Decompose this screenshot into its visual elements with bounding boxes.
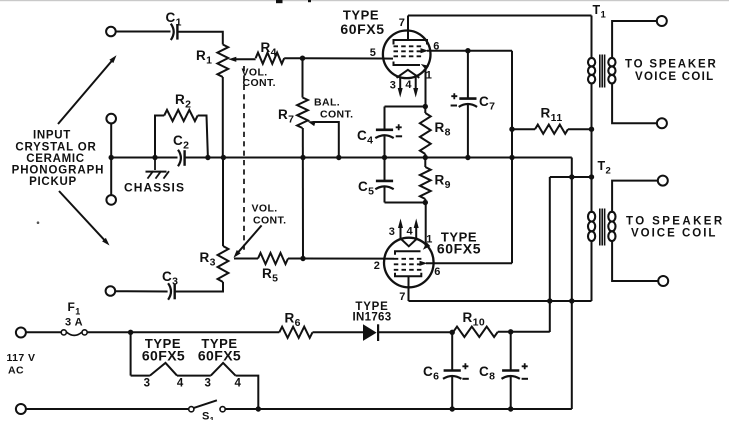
svg-text:3: 3: [144, 378, 151, 390]
wire C7 top lead: [467, 51, 469, 99]
svg-text:CHASSIS: CHASSIS: [124, 181, 185, 195]
switch S1: [189, 407, 194, 412]
R1 wiper arrow: [228, 57, 236, 62]
resistor R9: [424, 158, 426, 168]
capacitor C3: [168, 283, 171, 299]
wire J1 to C1: [116, 31, 171, 33]
wire C5 top lead: [384, 158, 386, 181]
stray ink speck: [37, 221, 40, 224]
svg-text:CERAMIC: CERAMIC: [26, 153, 85, 165]
node: C7 tap on pin6 wire: [465, 48, 470, 53]
wire R4 to grid node: [284, 57, 302, 59]
svg-text:PHONOGRAPH: PHONOGRAPH: [12, 165, 105, 177]
svg-text:4: 4: [235, 378, 242, 390]
junction rail: plate column: [509, 155, 514, 160]
V2 filament chevron: [400, 238, 418, 246]
svg-text:CONT.: CONT.: [253, 215, 287, 227]
svg-text:60FX5: 60FX5: [142, 347, 185, 363]
chassis ground symbol: [154, 158, 156, 171]
resistor R8: [424, 107, 426, 114]
svg-text:6: 6: [433, 40, 440, 52]
heater line V2 pin7 to T2 bottom: [409, 300, 592, 302]
svg-text:CONT.: CONT.: [320, 109, 354, 121]
wire C8 bottom lead: [510, 377, 512, 409]
input jack J1 terminal: [106, 27, 116, 37]
heater string drop: [130, 332, 132, 375]
pointer arrow to lower input: [59, 191, 107, 242]
junction rail B x v2 column: [569, 174, 574, 179]
svg-text:6: 6: [434, 266, 441, 278]
wire grid node to V1 pin5: [303, 57, 394, 59]
capacitor C6: [444, 369, 461, 372]
heater string return: [236, 376, 259, 409]
wire switch to corner: [225, 408, 572, 410]
wire V2 grid node to pin2: [303, 258, 394, 260]
capacitor C4: [376, 129, 393, 132]
heater string wire 1: [131, 375, 150, 377]
wire C1 to R1 top: [178, 32, 223, 45]
wire fuse to B+ line: [87, 331, 279, 333]
junction R7 lead x ground rail: [300, 155, 305, 160]
svg-text:60FX5: 60FX5: [340, 21, 384, 37]
wire to R10: [452, 331, 453, 333]
V1 pin4 arrow: [415, 77, 417, 93]
svg-text:PICKUP: PICKUP: [29, 176, 77, 188]
wire R5 to V2 grid node: [288, 258, 303, 260]
T1 secondary top lead: [612, 21, 657, 59]
V1 grid dashes: [394, 45, 424, 47]
crop artifact: faint page edge line: [0, 0, 729, 1]
node: C6 bottom: [450, 406, 455, 411]
T2 primary lead top: [591, 177, 593, 213]
node: heater return on AC rail: [256, 406, 261, 411]
node: T2 primary top: [589, 174, 594, 179]
wire ground rail left: [111, 157, 178, 159]
svg-text:3 A: 3 A: [65, 317, 83, 329]
wire R3 wiper to R5: [234, 258, 258, 260]
wire C6 top lead: [451, 332, 453, 370]
V1 pin3 arrow: [399, 77, 401, 93]
tube V1 envelope: [383, 31, 431, 79]
node: V1 cathode rail: [423, 104, 428, 109]
resistor R6: [279, 327, 312, 338]
svg-text:1: 1: [426, 69, 433, 81]
wire cathode rail: [385, 106, 426, 108]
resistor R4: [256, 53, 285, 64]
gang dashed link: [243, 66, 245, 252]
V2 pin6 lead with arrow: [420, 261, 428, 266]
V1 pin7 lead: [407, 16, 409, 41]
heater chevron V4: [211, 363, 236, 376]
speaker terminal 2a: [658, 176, 668, 186]
capacitor C5: [376, 180, 393, 183]
svg-text:60FX5: 60FX5: [437, 240, 481, 256]
svg-text:1: 1: [426, 234, 433, 246]
V2 plate bar: [395, 273, 421, 277]
R7 wiper arrow: [307, 121, 315, 126]
T1 core: [599, 55, 601, 88]
svg-text:2: 2: [374, 260, 381, 272]
crop artifact: clipped text blob: [276, 0, 283, 3]
node: R11 right junction: [589, 127, 594, 132]
T2 secondary bottom lead: [612, 240, 658, 281]
speaker terminal 1b: [657, 118, 667, 128]
wire rail B: [550, 176, 592, 178]
resistor R5: [258, 253, 288, 264]
potentiometer R7: [297, 98, 308, 129]
svg-text:AC: AC: [8, 365, 24, 377]
T2 primary winding: [588, 212, 595, 241]
T2 secondary winding: [608, 212, 615, 241]
node: R11 left junction: [509, 127, 514, 132]
node: V2 grid junction: [300, 256, 305, 261]
V1 plate bar: [394, 40, 428, 45]
svg-text:VOICE COIL: VOICE COIL: [635, 71, 714, 83]
C7 polarity +: [451, 93, 457, 99]
heater chevron V3: [150, 363, 177, 376]
svg-text:5: 5: [370, 47, 377, 59]
svg-text:CRYSTAL OR: CRYSTAL OR: [15, 142, 96, 154]
wire grid node down to R7: [302, 58, 304, 97]
C6 polarity +: [462, 363, 468, 369]
node: R9 bottom junction: [423, 200, 428, 205]
V2 pin7 lead: [408, 276, 410, 301]
R3 wiper arrow: [237, 225, 262, 254]
T1 primary winding: [588, 58, 595, 83]
C8 polarity +: [522, 363, 528, 369]
C8 polarity -: [522, 378, 528, 380]
T1 primary lead top: [408, 15, 592, 17]
C4 polarity -: [396, 135, 402, 137]
svg-text:BAL.: BAL.: [314, 97, 340, 109]
svg-text:3: 3: [390, 80, 397, 92]
svg-text:117 V: 117 V: [7, 352, 36, 364]
svg-text:3: 3: [205, 378, 212, 390]
svg-text:IN1763: IN1763: [353, 312, 392, 324]
AC terminal lower: [16, 404, 26, 414]
V1 filament chevron: [397, 70, 420, 78]
svg-text:7: 7: [399, 17, 406, 29]
C7 polarity -: [451, 105, 457, 107]
wire v1 column: [549, 177, 551, 332]
AC terminal upper: [16, 328, 26, 338]
wire C4 top lead: [384, 107, 386, 130]
crop artifact: clipped text dot: [308, 0, 311, 2]
svg-text:INPUT: INPUT: [33, 130, 71, 142]
wire ground rail main: [186, 157, 572, 159]
fuse F1: [61, 330, 66, 335]
C6 polarity -: [462, 378, 468, 380]
V2 pin1 lead with arrow: [425, 203, 427, 248]
wire R10 right: [498, 331, 550, 333]
svg-text:60FX5: 60FX5: [198, 347, 241, 363]
svg-text:4: 4: [177, 378, 184, 390]
capacitor C2: [178, 150, 181, 166]
V2 pin3 arrow: [400, 224, 402, 240]
input jack J3 terminal: [106, 195, 116, 205]
T2 secondary top lead: [612, 181, 658, 213]
junction v1 x heater line: [547, 298, 552, 303]
wire R7 bottom to V2 grid node: [302, 128, 304, 259]
svg-text:TO SPEAKER: TO SPEAKER: [625, 59, 718, 71]
wire diode to C6 node: [378, 331, 452, 333]
node: C6/R10 left: [450, 330, 455, 335]
svg-text:VOL.: VOL.: [252, 203, 278, 215]
resistor R2: [155, 116, 164, 158]
junction rail: R8/R9 column: [423, 155, 428, 160]
wire R11 right: [568, 128, 592, 130]
node: ground rail tap at jacks: [109, 155, 114, 160]
wire C5 bottom lead: [384, 187, 386, 202]
V2 grid dashes: [394, 258, 423, 260]
T2 primary lead bottom: [591, 240, 593, 301]
heater string wire 2: [177, 375, 211, 377]
C4 polarity +: [396, 124, 402, 130]
wire C6 bottom lead: [451, 377, 453, 409]
svg-text:7: 7: [399, 291, 406, 303]
resistor R11: [535, 125, 568, 134]
V2 pin4 arrow: [415, 224, 417, 240]
junction rail: C7 lead: [465, 155, 470, 160]
svg-text:3: 3: [389, 226, 396, 238]
junction rail: chassis/R2: [152, 155, 157, 160]
speaker terminal 1a: [657, 16, 667, 26]
wire C4 bottom lead: [384, 136, 386, 157]
T1 secondary bottom lead: [612, 83, 657, 124]
diode D1 1N1763: [363, 324, 377, 341]
wire AC to fuse: [26, 331, 61, 333]
junction rail: R1/R3 column: [221, 155, 226, 160]
svg-text:VOICE COIL: VOICE COIL: [631, 228, 717, 240]
node: V1 grid junction: [300, 56, 305, 61]
wire rail A corner down (v2 column): [571, 158, 573, 410]
speaker terminal 2b: [658, 276, 668, 286]
wire R6 to diode: [313, 331, 364, 333]
T1 secondary winding: [608, 58, 615, 83]
wire V1 pin6 column down to V2 pin6: [511, 51, 513, 264]
svg-text:4: 4: [405, 79, 412, 91]
junction rail: C4/C5 column: [382, 155, 387, 160]
node: C8 bottom: [508, 406, 513, 411]
pointer arrow to upper input: [58, 60, 113, 125]
wire C5/R9 bottom rail: [385, 202, 426, 204]
input jack J2 terminal: [106, 114, 116, 124]
tube V2 envelope: [384, 238, 434, 288]
wire C3 to J4: [115, 290, 167, 292]
capacitor C8: [502, 369, 519, 372]
node: heater-string tap: [128, 330, 133, 335]
node: C8/R10 right: [508, 329, 513, 334]
capacitor C7: [459, 97, 476, 100]
capacitor C1: [171, 24, 174, 40]
resistor R10: [453, 327, 498, 337]
wire rail to R3 top: [222, 158, 224, 247]
wire R3 bottom to C3: [176, 282, 224, 292]
junction v2 x heater line: [569, 298, 574, 303]
junction rail: R2 right: [205, 155, 210, 160]
wire AC lower to switch: [26, 408, 189, 410]
wire R1 bottom to ground rail: [222, 77, 224, 158]
V1 cathode bar: [394, 62, 421, 66]
input jack J4 terminal: [106, 286, 116, 296]
wire C7 bottom lead: [467, 105, 469, 158]
wire J2-J3 vertical: [110, 123, 112, 195]
potentiometer R3: [218, 246, 229, 282]
svg-text:4: 4: [407, 226, 414, 238]
wire R11 left: [512, 128, 535, 130]
V1 pin1 lead with arrow: [421, 64, 429, 70]
V2 cathode bar: [395, 251, 421, 255]
potentiometer R1: [217, 45, 228, 78]
T1 primary lead bottom: [591, 83, 593, 178]
junction R7 wiper to ground rail: [336, 155, 341, 160]
svg-text:CONT.: CONT.: [243, 77, 277, 89]
V1 pin6 lead with arrow: [421, 48, 429, 53]
wire C8 top lead: [510, 332, 512, 371]
T2 core: [599, 209, 601, 246]
svg-text:TO SPEAKER: TO SPEAKER: [626, 216, 725, 228]
